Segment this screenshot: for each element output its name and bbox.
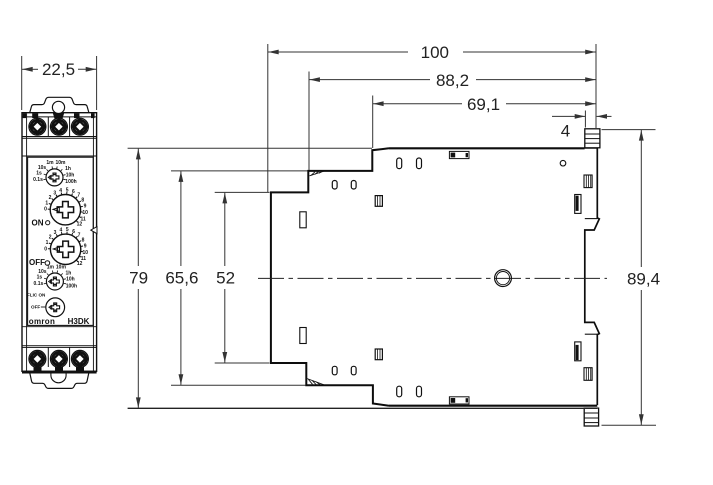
svg-text:4: 4 xyxy=(561,122,570,141)
svg-text:ON: ON xyxy=(32,218,44,227)
side view: vent slots lower pair A xyxy=(332,366,337,375)
front view: ON time dial xyxy=(50,195,80,225)
svg-text:100h: 100h xyxy=(65,179,76,185)
dimension 100 xyxy=(268,43,596,192)
dimension 69,1 xyxy=(373,95,596,148)
front view: label band lines xyxy=(22,136,97,138)
svg-text:6: 6 xyxy=(72,229,75,235)
dimension 79 xyxy=(128,148,597,408)
dimension 22,5 (front view width) xyxy=(22,56,97,110)
svg-text:52: 52 xyxy=(216,269,235,288)
svg-text:89,4: 89,4 xyxy=(627,270,660,289)
svg-text:OFF: OFF xyxy=(29,258,45,267)
dimension 88,2 xyxy=(309,71,596,170)
dimension 52 xyxy=(215,192,270,363)
side view: left step chamfer hatching top xyxy=(310,171,325,176)
side view: center line xyxy=(258,277,607,279)
side view: DIN clip block bottom xyxy=(584,408,598,426)
front view: bottom terminal section xyxy=(22,345,97,347)
svg-text:0.1s: 0.1s xyxy=(34,281,44,287)
svg-text:3: 3 xyxy=(53,191,56,197)
front view: faceplate border xyxy=(28,157,94,325)
svg-text:OFF: OFF xyxy=(31,305,40,310)
svg-text:5: 5 xyxy=(66,227,69,233)
svg-text:100: 100 xyxy=(421,43,449,62)
side view: right edge with DIN latch tabs xyxy=(585,218,598,220)
svg-text:9: 9 xyxy=(84,243,87,249)
front view: range dial top (ON range) xyxy=(46,169,63,186)
front view: timer body outline xyxy=(22,113,97,372)
svg-text:22,5: 22,5 xyxy=(42,60,75,79)
front view: top terminal section line xyxy=(22,116,97,118)
side view: top edge tab xyxy=(449,151,469,158)
svg-text:2: 2 xyxy=(49,195,52,201)
side view: latch bar bottom xyxy=(575,342,581,361)
front view: latch circle xyxy=(52,101,64,113)
side view: vent slots upper pair A xyxy=(332,181,337,190)
side view: DIN clip block top xyxy=(585,129,600,148)
svg-text:1: 1 xyxy=(46,240,49,246)
front view: right edge release notch xyxy=(91,227,97,234)
side view: vent slots lower pair B xyxy=(397,386,402,397)
front view: bottom screws xyxy=(29,350,46,367)
svg-text:7: 7 xyxy=(77,193,80,199)
svg-text:100h: 100h xyxy=(66,283,77,289)
front view: bottom DIN latch bump xyxy=(30,373,89,388)
svg-text:FLIC ON: FLIC ON xyxy=(27,292,46,297)
svg-text:4: 4 xyxy=(59,188,62,194)
svg-text:1h: 1h xyxy=(65,166,71,172)
svg-text:3: 3 xyxy=(54,230,57,236)
side view: small hole right top xyxy=(560,160,566,166)
svg-text:6: 6 xyxy=(72,189,75,195)
svg-text:9: 9 xyxy=(84,204,87,210)
front view: top screws M1 M2 M3 xyxy=(29,118,46,135)
svg-text:2: 2 xyxy=(49,234,52,240)
svg-text:1m: 1m xyxy=(47,264,55,270)
svg-text:1h: 1h xyxy=(65,270,71,276)
front view: top terminal separators xyxy=(47,117,49,136)
svg-text:H3DK: H3DK xyxy=(68,317,90,326)
svg-text:4: 4 xyxy=(60,228,63,234)
svg-text:0.1s: 0.1s xyxy=(33,177,43,183)
front view: OFF time dial xyxy=(50,234,80,264)
svg-text:12: 12 xyxy=(77,261,83,267)
side view: gray shadow companions xyxy=(273,149,596,405)
dimension 4 xyxy=(552,111,612,141)
side view: bottom edge tab xyxy=(449,397,469,404)
side view: front step rect top xyxy=(300,212,306,228)
svg-text:0: 0 xyxy=(44,246,47,252)
dimension 65,6 xyxy=(165,171,307,385)
svg-text:65,6: 65,6 xyxy=(165,269,198,288)
svg-text:1m: 1m xyxy=(46,160,54,166)
front view: top DIN latch bump xyxy=(30,97,89,112)
svg-text:omron: omron xyxy=(29,317,55,326)
side view: front step rect bottom xyxy=(300,328,306,344)
svg-text:0: 0 xyxy=(44,207,47,213)
svg-text:1s: 1s xyxy=(37,275,43,281)
dimension 89,4 xyxy=(602,130,661,426)
svg-text:10: 10 xyxy=(83,250,89,256)
front view: top terminal dark openings xyxy=(32,113,38,118)
svg-text:7: 7 xyxy=(78,232,81,238)
svg-text:10h: 10h xyxy=(66,277,75,283)
side view: center hole xyxy=(495,270,512,287)
svg-text:79: 79 xyxy=(129,269,148,288)
side view: hatched clip slot top xyxy=(584,175,592,188)
side view: hatched clip slot bottom xyxy=(584,368,592,381)
side view: left step chamfer hatching bottom xyxy=(307,379,325,386)
side view: latch bar top xyxy=(575,195,581,214)
front view: bottom latch arch notch xyxy=(51,373,66,383)
side view: main body outline xyxy=(271,148,599,406)
side view: vent slots upper pair B xyxy=(397,158,402,169)
svg-text:88,2: 88,2 xyxy=(436,71,469,90)
side view: grille square bottom xyxy=(375,349,382,360)
svg-text:1s: 1s xyxy=(36,170,42,176)
svg-text:10: 10 xyxy=(82,210,88,216)
svg-text:10h: 10h xyxy=(66,173,75,179)
front view: mode selector dial xyxy=(46,298,65,317)
side view: grille square top xyxy=(375,196,382,207)
front view: bottom dark openings xyxy=(34,367,42,372)
front view: range dial bottom (OFF range) xyxy=(46,273,63,290)
svg-text:1: 1 xyxy=(45,200,48,206)
svg-text:69,1: 69,1 xyxy=(467,95,500,114)
svg-text:5: 5 xyxy=(66,188,69,194)
svg-text:12: 12 xyxy=(77,222,83,228)
